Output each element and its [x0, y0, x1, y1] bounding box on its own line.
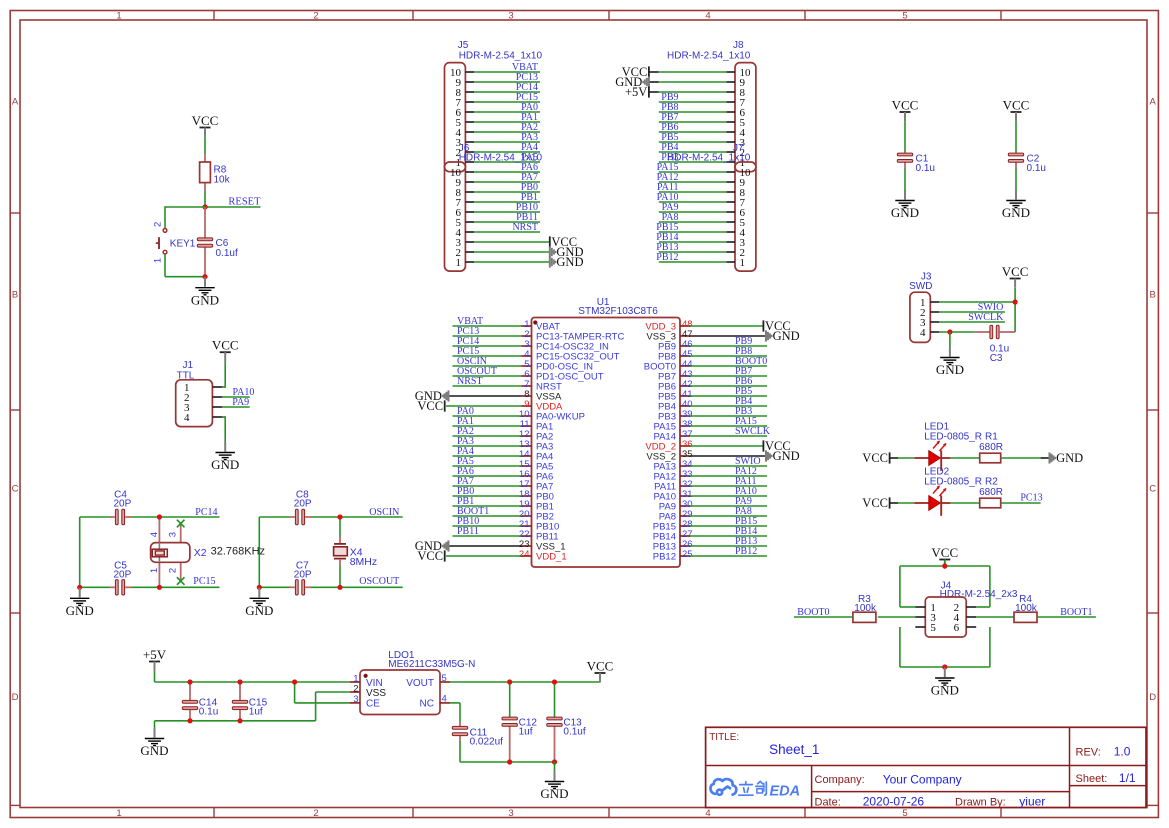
top ruler ticks	[214, 11, 1001, 21]
label C3 value	[990, 343, 1009, 364]
capacitor C5	[110, 586, 131, 588]
power flag VCC (LED2)	[862, 496, 889, 510]
svg-text:2: 2	[152, 222, 163, 227]
svg-text:VCC: VCC	[417, 399, 443, 413]
J7 pin 5 PA8	[659, 212, 746, 229]
right ruler ticks	[1147, 213, 1158, 613]
title block REV	[1076, 745, 1131, 759]
svg-text:Sheet:: Sheet:	[1076, 773, 1108, 785]
node J4 VCC junction	[942, 563, 947, 568]
J7 pin 9 PA12	[657, 172, 746, 189]
wire input GND drop	[154, 721, 156, 728]
ground GND (LDO output)	[540, 771, 568, 801]
svg-text:VCC: VCC	[587, 658, 614, 673]
J8 pin 10	[649, 67, 751, 79]
svg-text:CE: CE	[366, 699, 380, 710]
resistor R4 100k	[1014, 594, 1038, 622]
U1 pin 36 VDD_2	[645, 439, 692, 452]
capacitor C3	[974, 331, 1015, 333]
U1 pin 18 PB0	[453, 486, 554, 502]
svg-text:VOUT: VOUT	[406, 678, 434, 689]
node output bottom junctions	[507, 759, 557, 764]
svg-text:GND: GND	[891, 205, 919, 220]
wire output GND drop	[554, 762, 556, 771]
J5 pin 5 PA1	[456, 112, 541, 129]
wire LDO input bottom rail	[155, 692, 351, 721]
node J4 GND junction	[942, 664, 947, 669]
wire OSC32 top rail	[80, 516, 220, 518]
power flag +5V	[143, 647, 167, 671]
svg-text:C: C	[1149, 484, 1156, 495]
U1 pin 8 GND flag	[449, 395, 522, 397]
ground GND (OSC)	[245, 588, 273, 618]
J8 pin 5	[659, 112, 746, 129]
J8 pin 3	[659, 132, 746, 149]
power flag VCC (J1)	[212, 338, 239, 362]
resistor R1 680R	[979, 432, 1003, 463]
wire junction to KEY1 top	[165, 206, 205, 228]
svg-text:GND: GND	[211, 457, 239, 472]
U1 pin 38 PA15	[653, 416, 767, 432]
U1 pin 29 PA8	[659, 506, 767, 522]
wire VCC to LED2	[890, 502, 915, 504]
label C13 value	[563, 717, 585, 737]
connector J5 header	[445, 40, 543, 172]
J6 pin 7	[456, 192, 541, 209]
U1 pin 19 PB1	[453, 496, 554, 512]
capacitor C7	[290, 586, 311, 588]
svg-text:D: D	[12, 692, 19, 703]
svg-text:EDA: EDA	[770, 784, 801, 800]
svg-text:OSCIN: OSCIN	[369, 507, 399, 518]
wire output bottom rail	[460, 741, 555, 762]
ground GND (C1)	[891, 190, 919, 220]
svg-text:REV:: REV:	[1076, 747, 1101, 759]
label C14 value	[199, 697, 218, 717]
svg-text:BOOT1: BOOT1	[1060, 607, 1092, 618]
svg-text:8MHz: 8MHz	[350, 556, 377, 568]
node OSC GND junction	[257, 585, 262, 590]
svg-text:A: A	[1150, 97, 1157, 108]
svg-text:GND: GND	[556, 255, 583, 269]
wire J3 pin1 to VCC node	[939, 301, 1015, 303]
U1 pin 34 PA13	[653, 456, 767, 472]
wire CE branch	[295, 682, 350, 703]
capacitor C15	[239, 682, 241, 721]
svg-text:VDD_1: VDD_1	[536, 552, 567, 563]
svg-text:1: 1	[456, 257, 462, 269]
no-connect X mark pin3	[177, 520, 185, 528]
wire VCC to LED1	[890, 457, 915, 459]
svg-text:2: 2	[353, 683, 358, 694]
LED LED2 LED-0805_R	[914, 467, 982, 516]
node J3 pin4 junction	[947, 329, 952, 334]
svg-text:1: 1	[152, 258, 163, 263]
svg-text:SWCLK: SWCLK	[735, 426, 771, 437]
label C1 value	[916, 154, 935, 175]
bottom ruler ticks	[214, 808, 1001, 818]
J5 pin 10 VBAT	[450, 62, 540, 79]
U1 pin 32 PA11	[654, 476, 767, 492]
svg-text:2: 2	[313, 808, 318, 819]
ground GND (KEY1)	[191, 277, 219, 307]
svg-text:ME6211C33M5G-N: ME6211C33M5G-N	[388, 659, 475, 670]
svg-text:TITLE:: TITLE:	[709, 732, 739, 743]
ground GND (LDO input)	[140, 728, 168, 758]
svg-text:1: 1	[740, 257, 746, 269]
svg-text:BOOT0: BOOT0	[797, 607, 829, 618]
power flag VCC (J4)	[931, 545, 958, 569]
svg-text:2: 2	[168, 568, 179, 573]
capacitor C11	[459, 722, 461, 741]
svg-text:24: 24	[519, 549, 530, 560]
svg-text:PC14: PC14	[195, 507, 217, 518]
J6 pin 10	[450, 162, 540, 179]
svg-text:C: C	[12, 484, 19, 495]
U1 pin 9 VCC flag	[446, 405, 522, 407]
J8 pin 1	[659, 152, 745, 169]
ground GND (J3)	[936, 347, 964, 377]
node VOUT junctions	[507, 679, 557, 684]
svg-text:0.1u: 0.1u	[1027, 163, 1046, 174]
svg-text:0.1uf: 0.1uf	[563, 727, 585, 738]
U1 pin 2 PC13-TAMPER-RTC	[453, 326, 625, 342]
power flag GND (J8 pin9)	[615, 75, 649, 89]
svg-text:100k: 100k	[1015, 603, 1038, 614]
resistor R3 100k	[853, 594, 877, 622]
power flag VCC (C2)	[1003, 97, 1030, 121]
U1 pin 39 PB3	[658, 406, 767, 422]
svg-text:20P: 20P	[294, 570, 312, 581]
U1 pin 23 VSS_1	[519, 539, 566, 552]
power flag VCC (J6 pin3)	[550, 235, 577, 249]
svg-text:VCC: VCC	[862, 496, 888, 510]
label C15 value	[249, 697, 268, 717]
wire OSC top rail	[259, 516, 402, 518]
J6 pin 1	[456, 257, 550, 269]
svg-text:1.0: 1.0	[1114, 745, 1131, 759]
svg-text:+5V: +5V	[143, 647, 167, 662]
svg-text:SWCLK: SWCLK	[968, 312, 1004, 323]
svg-text:32.768KHz: 32.768KHz	[211, 546, 265, 558]
svg-text:2020-07-26: 2020-07-26	[863, 794, 925, 808]
svg-text:LED-0805_R: LED-0805_R	[924, 431, 982, 442]
svg-text:C3: C3	[990, 353, 1003, 364]
svg-text:R2: R2	[985, 477, 998, 488]
svg-text:Date:: Date:	[815, 796, 841, 808]
J8 pin 7	[659, 92, 746, 109]
J8 pin 9	[649, 77, 746, 89]
svg-text:1/1: 1/1	[1119, 771, 1136, 785]
svg-text:VCC: VCC	[192, 113, 219, 128]
svg-text:GND: GND	[140, 743, 168, 758]
U1 pin 27 PB14	[653, 526, 767, 542]
U1 pin 46 PB9	[658, 336, 767, 352]
svg-text:680R: 680R	[979, 487, 1003, 498]
power flag GND (J6 pin1)	[550, 255, 584, 269]
J7 pin 1 PB12	[656, 252, 745, 269]
svg-text:GND: GND	[191, 292, 219, 307]
svg-text:0.1uf: 0.1uf	[216, 248, 238, 259]
power flag +5V (J8 pin8)	[625, 85, 649, 99]
power flag GND (J6 pin2)	[550, 245, 584, 259]
U1 pin 8 VSSA	[522, 389, 563, 402]
U1 pin 44 BOOT0	[644, 356, 767, 372]
svg-text:VCC: VCC	[931, 545, 958, 560]
J5 pin 4 PA2	[456, 122, 541, 139]
U1 pin 7 NRST	[453, 376, 563, 392]
svg-text:1uf: 1uf	[519, 727, 533, 738]
wire J4 pin4 to R4	[976, 616, 1014, 618]
svg-text:VCC: VCC	[892, 97, 919, 112]
IC U1 STM32F103C8T6 body	[532, 297, 681, 567]
svg-text:GND: GND	[66, 603, 94, 618]
wire J1 pin1 to VCC	[222, 362, 225, 388]
label C5 value	[114, 560, 132, 580]
J6 pin 8	[456, 182, 541, 199]
ground GND (J1)	[211, 442, 239, 472]
node X2 pin4 junction	[157, 514, 162, 519]
svg-text:Your Company: Your Company	[883, 773, 962, 787]
ground GND (OSC32)	[66, 588, 94, 618]
svg-text:4: 4	[184, 412, 190, 424]
J6 pin 6	[456, 202, 541, 219]
svg-text:VCC: VCC	[1002, 264, 1029, 279]
U1 pin 13 PA3	[453, 436, 554, 452]
U1 pin 25 PB12	[653, 546, 767, 562]
U1 pin 37 PA14	[653, 426, 770, 442]
svg-text:D: D	[1149, 692, 1156, 703]
no-connect X mark pin2	[177, 577, 185, 585]
label C8 value	[294, 490, 312, 510]
U1 pin 23 GND flag	[449, 545, 522, 547]
svg-text:STM32F103C8T6: STM32F103C8T6	[578, 306, 658, 317]
U1 pin 47 GND flag	[690, 335, 766, 337]
J6 pin 5	[456, 212, 541, 229]
node J3 pin1 junction	[1013, 299, 1018, 304]
node +5V rail junctions	[187, 679, 297, 684]
connector J1 TTL	[176, 360, 223, 427]
J5 pin 6 PA0	[456, 102, 541, 119]
J7 pin 7 PA10	[657, 192, 746, 209]
svg-text:VCC: VCC	[212, 338, 239, 353]
logo LCEDA text	[739, 781, 767, 795]
svg-text:B: B	[12, 290, 18, 301]
svg-text:1: 1	[116, 10, 121, 21]
svg-text:R1: R1	[985, 432, 998, 443]
svg-text:RESET: RESET	[228, 197, 261, 208]
crystal X2	[149, 517, 265, 587]
U1 pin 20 PB2	[453, 506, 554, 522]
wire OSC left rail	[258, 517, 260, 587]
svg-text:J8: J8	[733, 40, 744, 51]
svg-text:PC15: PC15	[193, 576, 215, 587]
J5 pin 2 PA4	[456, 142, 541, 159]
push button KEY1	[152, 222, 196, 263]
power flag VCC (J3)	[1002, 264, 1029, 288]
capacitor C1	[904, 121, 906, 190]
U1 pin 31 PA10	[653, 486, 767, 502]
wire R8 to RESET node	[204, 191, 206, 207]
J7 pin 10 PA15	[657, 162, 751, 179]
svg-text:25: 25	[682, 549, 693, 560]
svg-text:4: 4	[705, 10, 710, 21]
wire LED2 to R2	[950, 502, 979, 504]
U1 pin 30 PA9	[659, 496, 767, 512]
wire VOUT rail	[450, 681, 600, 683]
U1 pin 5 PD0-OSC_IN	[453, 356, 594, 372]
label C11 value	[470, 727, 504, 747]
svg-text:B: B	[1150, 290, 1156, 301]
U1 pin 21 PB10	[453, 516, 560, 532]
U1 pin 24 VDD_1	[519, 549, 567, 562]
svg-text:20P: 20P	[294, 499, 312, 510]
svg-text:yiuer: yiuer	[1019, 794, 1045, 808]
J7 pin 3 PB14	[656, 232, 745, 249]
svg-text:0.1u: 0.1u	[199, 707, 218, 718]
border band closures	[10, 804, 1158, 806]
U1 pin 43 PB7	[658, 366, 767, 382]
capacitor C8	[290, 516, 311, 518]
svg-text:Sheet_1: Sheet_1	[769, 742, 819, 757]
J6 pin 2	[456, 247, 550, 259]
svg-text:GND: GND	[773, 449, 800, 463]
svg-text:GND: GND	[773, 329, 800, 343]
crystal X4	[334, 517, 378, 587]
svg-text:SWD: SWD	[909, 281, 932, 292]
U1 pin 33 PA12	[653, 466, 767, 482]
node OSC32 GND junction	[77, 585, 82, 590]
capacitor C12	[509, 682, 511, 762]
wire GND drop (J3)	[949, 332, 951, 347]
wire LED1 to R1	[950, 457, 979, 459]
U1 pin 47 VSS_3	[646, 329, 692, 342]
wire J1 pin2 PA10	[222, 396, 249, 398]
U1 pin 11 PA1	[453, 416, 554, 432]
wire R2 tail	[1001, 502, 1041, 504]
J8 pin 4	[659, 122, 746, 139]
U1 pin 35 VSS_2	[646, 449, 692, 462]
connector J4 HDR-M-2.54_2x3	[915, 580, 1018, 637]
svg-text:Company:: Company:	[815, 774, 865, 786]
J7 pin 4 PB15	[656, 222, 745, 239]
wire NC to C11	[450, 703, 460, 722]
capacitor C13	[554, 682, 556, 762]
ruler row letters left	[12, 97, 19, 704]
svg-text:100k: 100k	[854, 603, 877, 614]
wire KEY1 bottom	[165, 254, 205, 277]
power flag VCC (LDO out)	[587, 658, 614, 682]
title block Sheet number	[1076, 771, 1136, 785]
svg-text:4: 4	[920, 327, 926, 339]
node X4 top junction	[337, 514, 342, 519]
svg-text:VSS: VSS	[366, 688, 386, 699]
svg-text:3: 3	[508, 10, 513, 21]
svg-text:+5V: +5V	[625, 85, 647, 99]
svg-text:20P: 20P	[114, 570, 132, 581]
svg-text:A: A	[12, 97, 19, 108]
node KEY1 bottom junction	[202, 274, 207, 279]
svg-text:2: 2	[313, 10, 318, 21]
svg-text:20P: 20P	[114, 499, 132, 510]
svg-text:X2: X2	[194, 547, 207, 559]
svg-text:KEY1: KEY1	[170, 238, 196, 249]
capacitor C2	[1015, 121, 1017, 190]
wire OSC32 bottom rail	[80, 586, 220, 588]
svg-text:4: 4	[442, 693, 447, 704]
power flag VCC (C1)	[892, 97, 919, 121]
J5 pin 1 PA5	[456, 152, 541, 169]
svg-text:1: 1	[116, 808, 121, 819]
U1 pin 40 PB4	[658, 396, 767, 412]
U1 pin 14 PA4	[453, 446, 554, 462]
wire J1 pin4 to GND	[222, 416, 225, 442]
power flag VCC (J8 pin10)	[622, 65, 649, 79]
U1 pin 22 PB11	[453, 526, 559, 542]
node X2 pin1 junction	[157, 585, 162, 590]
U1 pin 42 PB6	[658, 376, 767, 392]
U1 pin 17 PA7	[453, 476, 554, 492]
svg-text:1uf: 1uf	[249, 707, 263, 718]
svg-text:NRST: NRST	[457, 376, 483, 387]
J5 pin 3 PA3	[456, 132, 541, 149]
wire R1 tail	[1001, 457, 1041, 459]
U1 pin 24 VCC flag	[446, 555, 522, 557]
title block frame	[706, 727, 1146, 807]
svg-text:J5: J5	[458, 40, 469, 51]
J8 pin 8	[649, 87, 746, 99]
U1 pin 1 VBAT	[453, 316, 561, 332]
svg-text:PA9: PA9	[232, 397, 249, 408]
connector J8 header	[667, 40, 756, 172]
J7 pin 2 PB13	[656, 242, 745, 259]
svg-text:GND: GND	[1002, 205, 1030, 220]
U1 pin 45 PB8	[658, 346, 767, 362]
svg-text:4: 4	[705, 808, 710, 819]
svg-text:PC13: PC13	[1020, 493, 1042, 504]
capacitor C4	[110, 516, 131, 518]
U1 pin 6 PD1-OSC_OUT	[453, 366, 604, 382]
power flag GND (LED1)	[1050, 451, 1084, 465]
svg-text:PB11: PB11	[457, 526, 479, 537]
svg-text:HDR-M-2.54_1x10: HDR-M-2.54_1x10	[667, 51, 751, 62]
label C12 value	[519, 717, 538, 737]
U1 pin 12 PA2	[453, 426, 554, 442]
resistor R8	[200, 154, 231, 191]
J6 pin 9	[456, 172, 541, 189]
J5 pin 7 PC15	[456, 92, 541, 109]
svg-text:NC: NC	[420, 699, 434, 710]
wire J3 pin3 SWCLK	[939, 321, 1005, 323]
svg-text:PB12: PB12	[656, 252, 678, 263]
U1 pin 16 PA6	[453, 466, 554, 482]
resistor R2 680R	[979, 477, 1003, 508]
ruler row letters right	[1149, 97, 1156, 704]
svg-text:PB12: PB12	[653, 552, 676, 563]
wire OSC bottom rail	[259, 586, 402, 588]
LED LED1 LED-0805_R	[914, 422, 982, 471]
svg-text:3: 3	[168, 532, 179, 537]
U1 pin 28 PB15	[653, 516, 767, 532]
ruler column numbers top	[116, 10, 907, 21]
svg-text:10k: 10k	[214, 175, 231, 186]
svg-text:NRST: NRST	[512, 222, 538, 233]
wire OSC32 left rail	[79, 517, 81, 587]
power flag VCC (R8)	[192, 113, 219, 137]
svg-text:J1: J1	[183, 360, 194, 371]
svg-text:LED-0805_R: LED-0805_R	[924, 476, 982, 487]
wire J3 pin2 SWIO	[939, 311, 1005, 313]
